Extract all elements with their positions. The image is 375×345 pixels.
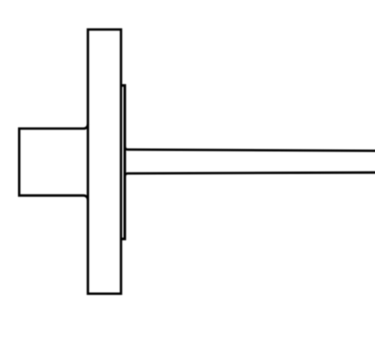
collar strip on right face of flange [121,85,125,239]
flange body (tall rectangle) [88,30,121,294]
shaft bottom edge with fillet [125,173,375,177]
shaft top edge with fillet [125,147,375,151]
hub boss on left with fillets [19,124,88,200]
